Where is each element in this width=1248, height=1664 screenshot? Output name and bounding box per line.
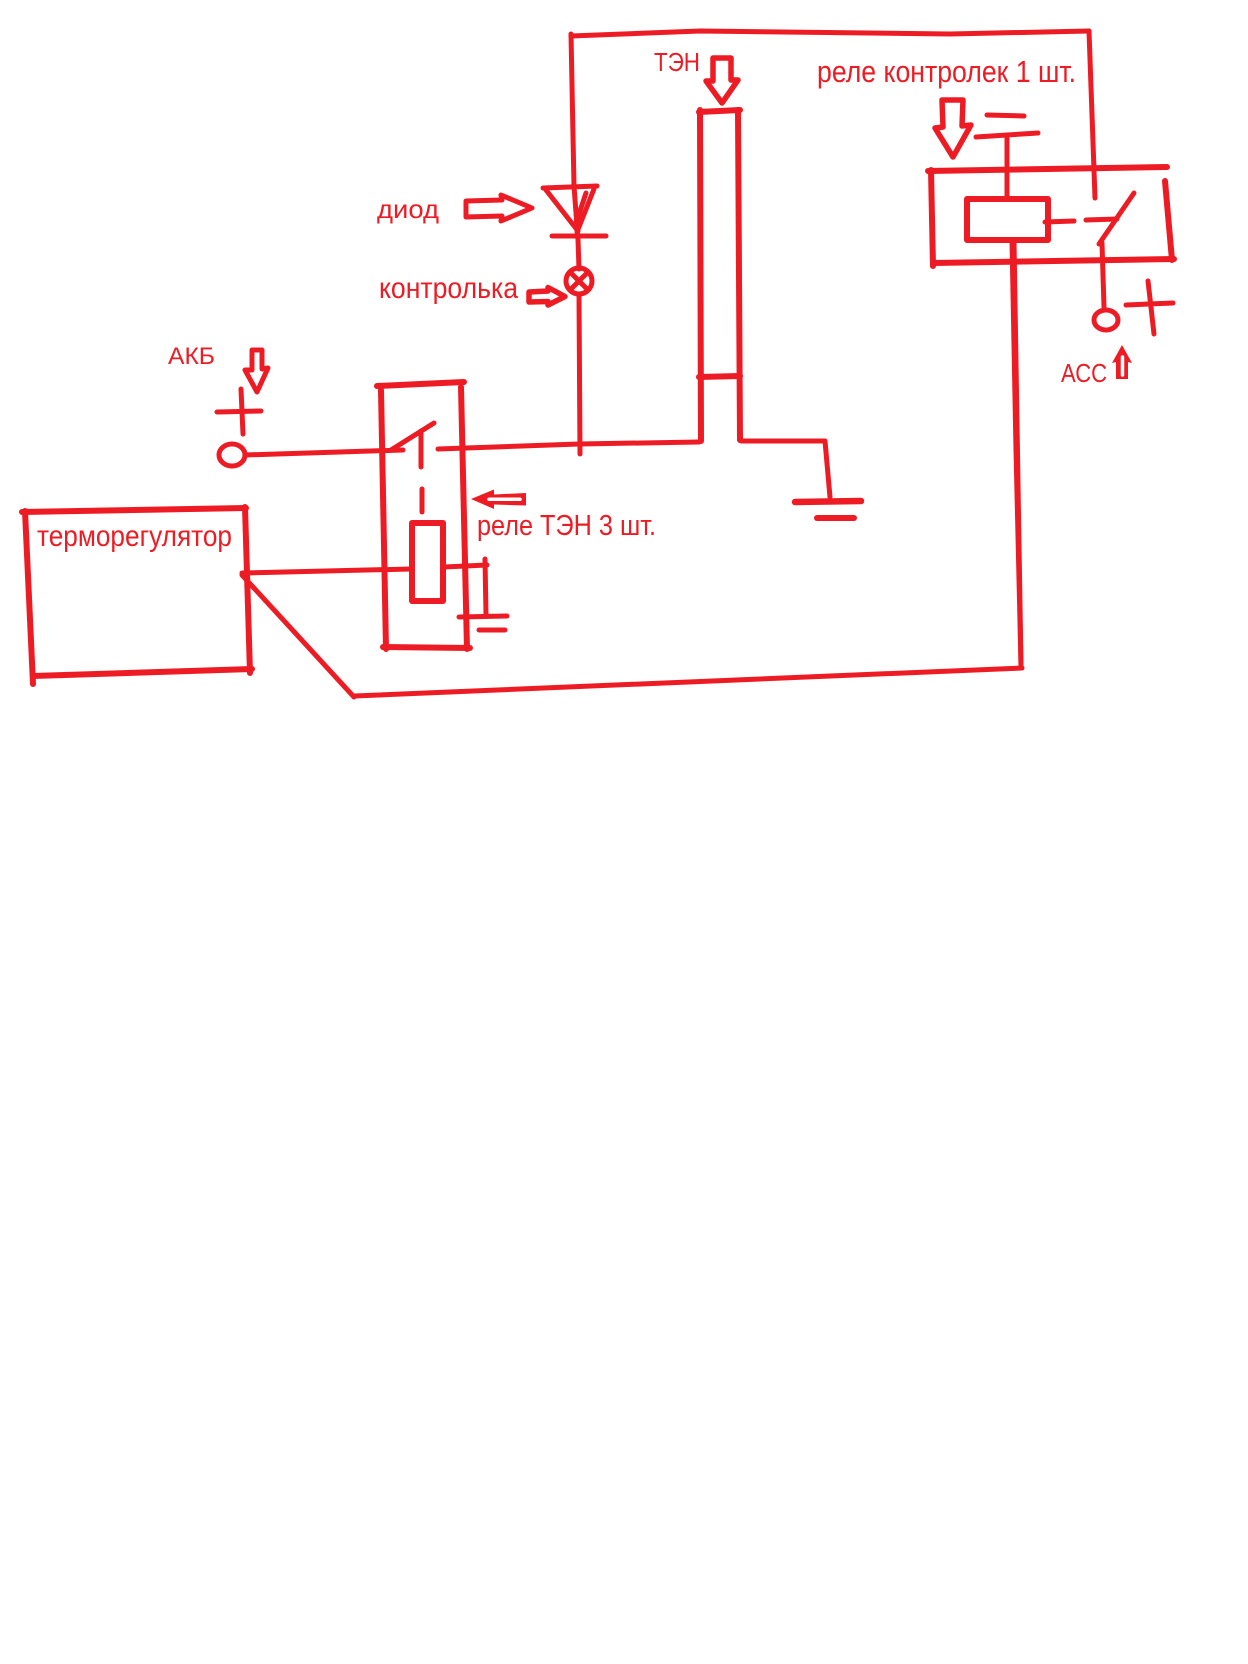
- lamp контролька: [566, 268, 592, 294]
- терморегулятор box: [22, 507, 252, 684]
- wire ТЭН right to ground: [741, 441, 830, 497]
- relay ТЭН switch blade: [391, 423, 434, 450]
- wire right vertical to coil: [1014, 241, 1021, 665]
- arrow to diode: [466, 195, 532, 221]
- wire top bus: [571, 31, 1089, 36]
- relay контролек box: [928, 167, 1174, 266]
- plus sign АКБ: [217, 389, 261, 434]
- ТЭН element: [699, 110, 740, 441]
- wire АКБ to relay: [245, 450, 403, 455]
- arrow АКБ down: [245, 350, 268, 392]
- wire lamp to bus: [579, 294, 580, 454]
- relay ТЭН coil: [412, 523, 443, 601]
- arrow to relay ТЭН: [471, 490, 526, 510]
- ground near relay ТЭН: [459, 616, 507, 630]
- svg-text:ТЭН: ТЭН: [654, 47, 700, 77]
- wire coil right to ground: [444, 565, 487, 567]
- svg-text:АКБ: АКБ: [168, 343, 215, 370]
- svg-text:АСС: АСС: [1061, 358, 1107, 388]
- wire through diode: [574, 186, 578, 240]
- relay ТЭН box: [377, 382, 470, 649]
- relay ТЭН armature link: [421, 431, 422, 512]
- drop to ACC terminal: [1102, 243, 1104, 307]
- coil top stub: [1005, 138, 1010, 199]
- svg-text:контролька: контролька: [379, 272, 518, 305]
- diode D1: [543, 186, 606, 236]
- wire left drop to diode: [571, 34, 574, 186]
- wire diode to lamp: [578, 239, 579, 269]
- arrow to lamp: [529, 288, 565, 306]
- drop to ground: [485, 559, 486, 615]
- svg-text:реле ТЭН 3 шт.: реле ТЭН 3 шт.: [477, 510, 656, 542]
- wire bottom long: [354, 668, 1022, 696]
- ground below ТЭН: [795, 501, 861, 518]
- arrow реле контролек down: [935, 100, 971, 157]
- wire therm diagonal: [242, 575, 354, 697]
- arrow ТЭН down: [706, 58, 738, 103]
- wire therm to coil: [242, 569, 411, 573]
- terminal АКБ: [219, 444, 245, 466]
- relay контролек coil: [967, 199, 1048, 240]
- switch stub: [1086, 219, 1117, 220]
- wire bus relay to ТЭН: [438, 442, 699, 449]
- plus sign ACC: [1126, 281, 1173, 334]
- svg-text:терморегулятор: терморегулятор: [37, 520, 232, 553]
- coil right stub: [1045, 221, 1074, 222]
- wire right drop to relay box: [1089, 31, 1095, 198]
- battery bars: [976, 115, 1038, 137]
- switch blade: [1099, 193, 1134, 244]
- coil bottom drop: [1012, 240, 1021, 665]
- svg-text:реле контролек 1 шт.: реле контролек 1 шт.: [817, 54, 1076, 89]
- svg-text:диод: диод: [377, 194, 439, 224]
- terminal ACC: [1094, 310, 1118, 330]
- arrow АСС up: [1112, 345, 1132, 379]
